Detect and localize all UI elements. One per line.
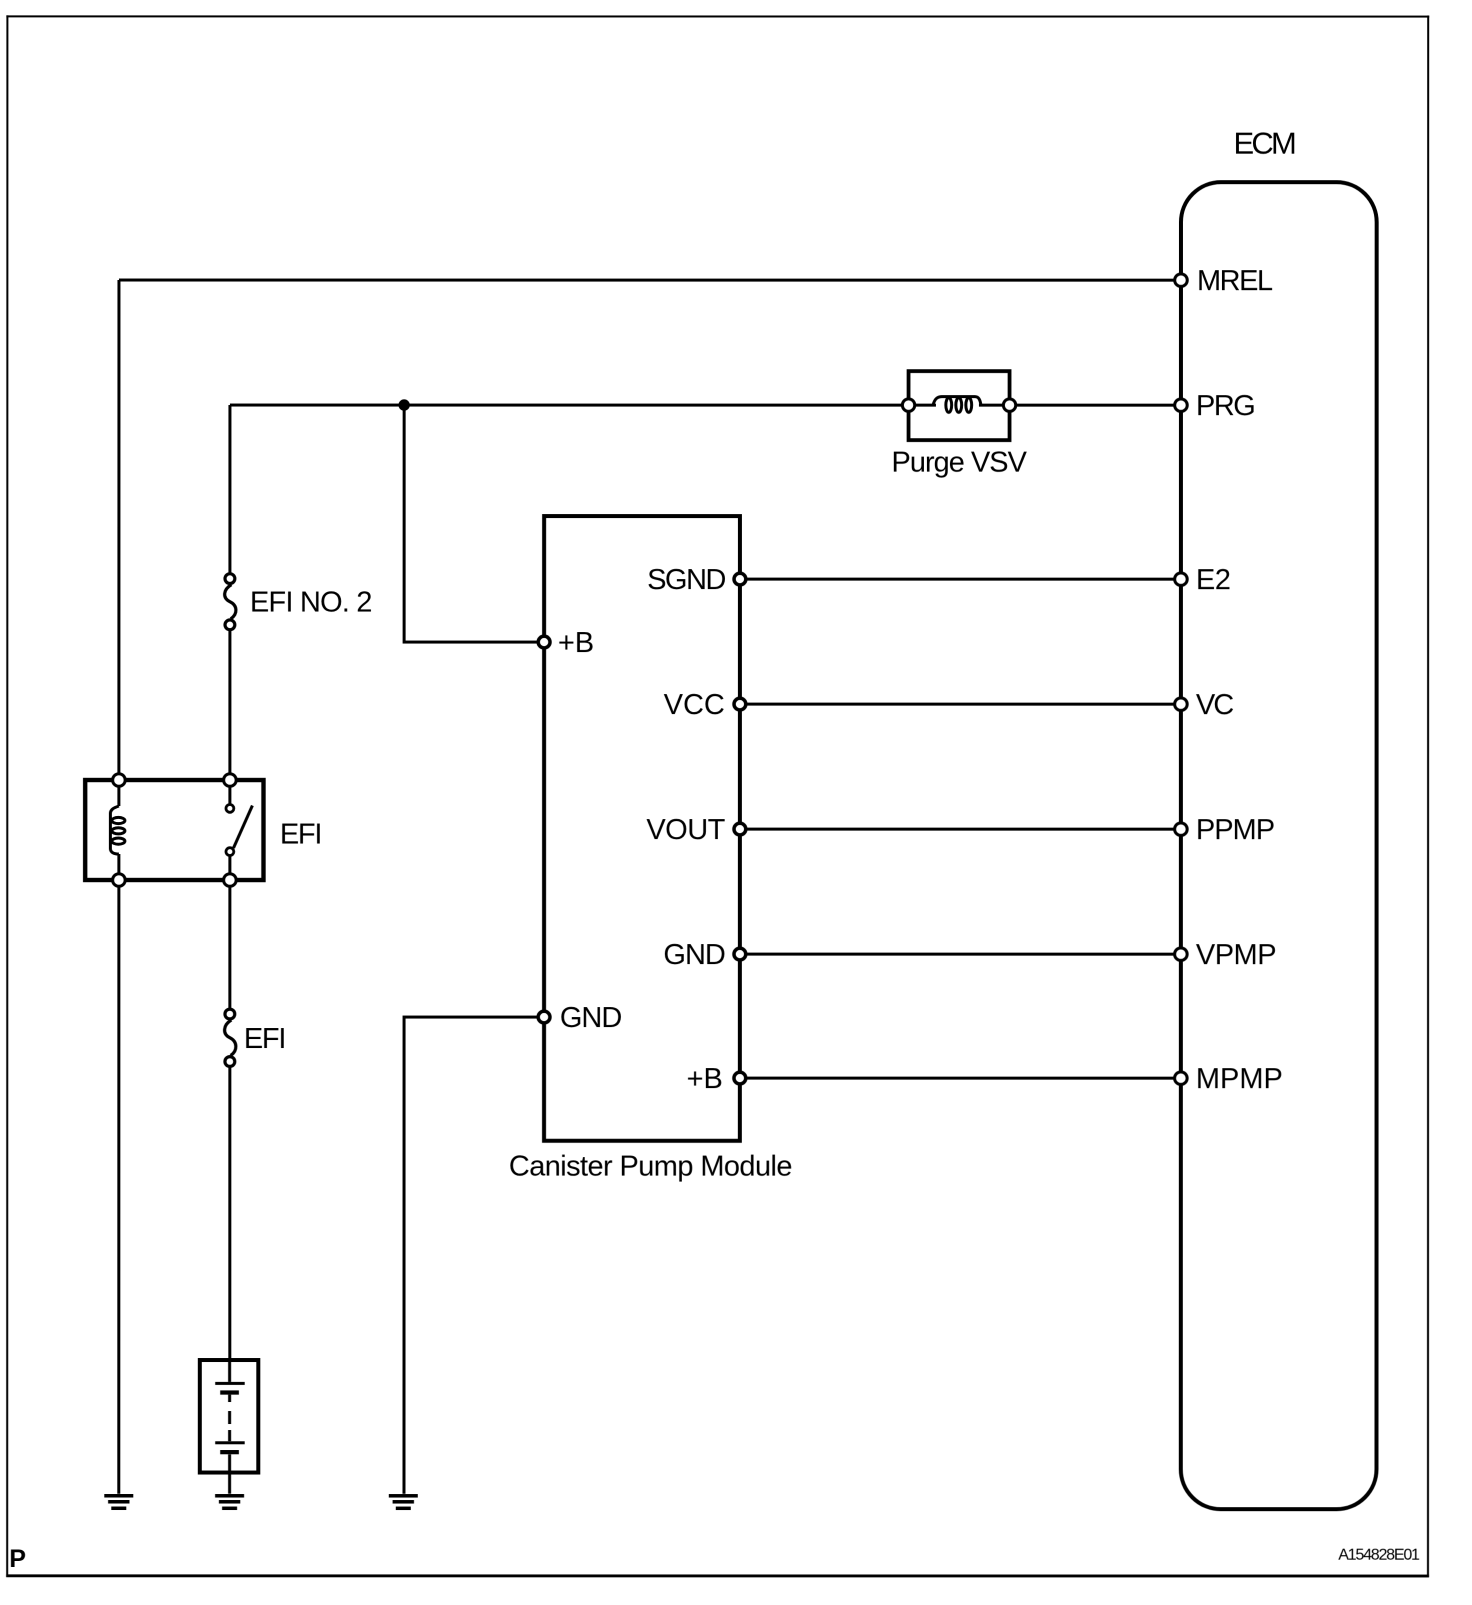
svg-text:A154828E01: A154828E01 [1338, 1547, 1420, 1564]
svg-text:+B: +B [687, 1063, 723, 1095]
svg-text:PPMP: PPMP [1196, 814, 1274, 846]
svg-text:VOUT: VOUT [646, 814, 725, 846]
svg-text:MREL: MREL [1197, 265, 1273, 297]
svg-text:EFI: EFI [280, 819, 321, 851]
svg-text:VC: VC [1196, 689, 1233, 721]
svg-text:+B: +B [558, 627, 594, 659]
svg-text:PRG: PRG [1196, 390, 1254, 422]
svg-text:EFI NO. 2: EFI NO. 2 [250, 587, 372, 619]
svg-text:SGND: SGND [647, 564, 725, 596]
svg-text:Canister Pump Module: Canister Pump Module [509, 1150, 792, 1182]
svg-text:VPMP: VPMP [1196, 939, 1276, 971]
svg-text:E2: E2 [1196, 564, 1230, 596]
svg-text:GND: GND [663, 939, 725, 971]
svg-text:P: P [9, 1545, 26, 1573]
svg-text:EFI: EFI [244, 1023, 285, 1055]
svg-text:Purge VSV: Purge VSV [891, 447, 1027, 479]
svg-text:GND: GND [560, 1002, 622, 1034]
svg-text:VCC: VCC [664, 689, 725, 721]
svg-text:MPMP: MPMP [1196, 1063, 1283, 1095]
svg-text:ECM: ECM [1233, 126, 1294, 161]
